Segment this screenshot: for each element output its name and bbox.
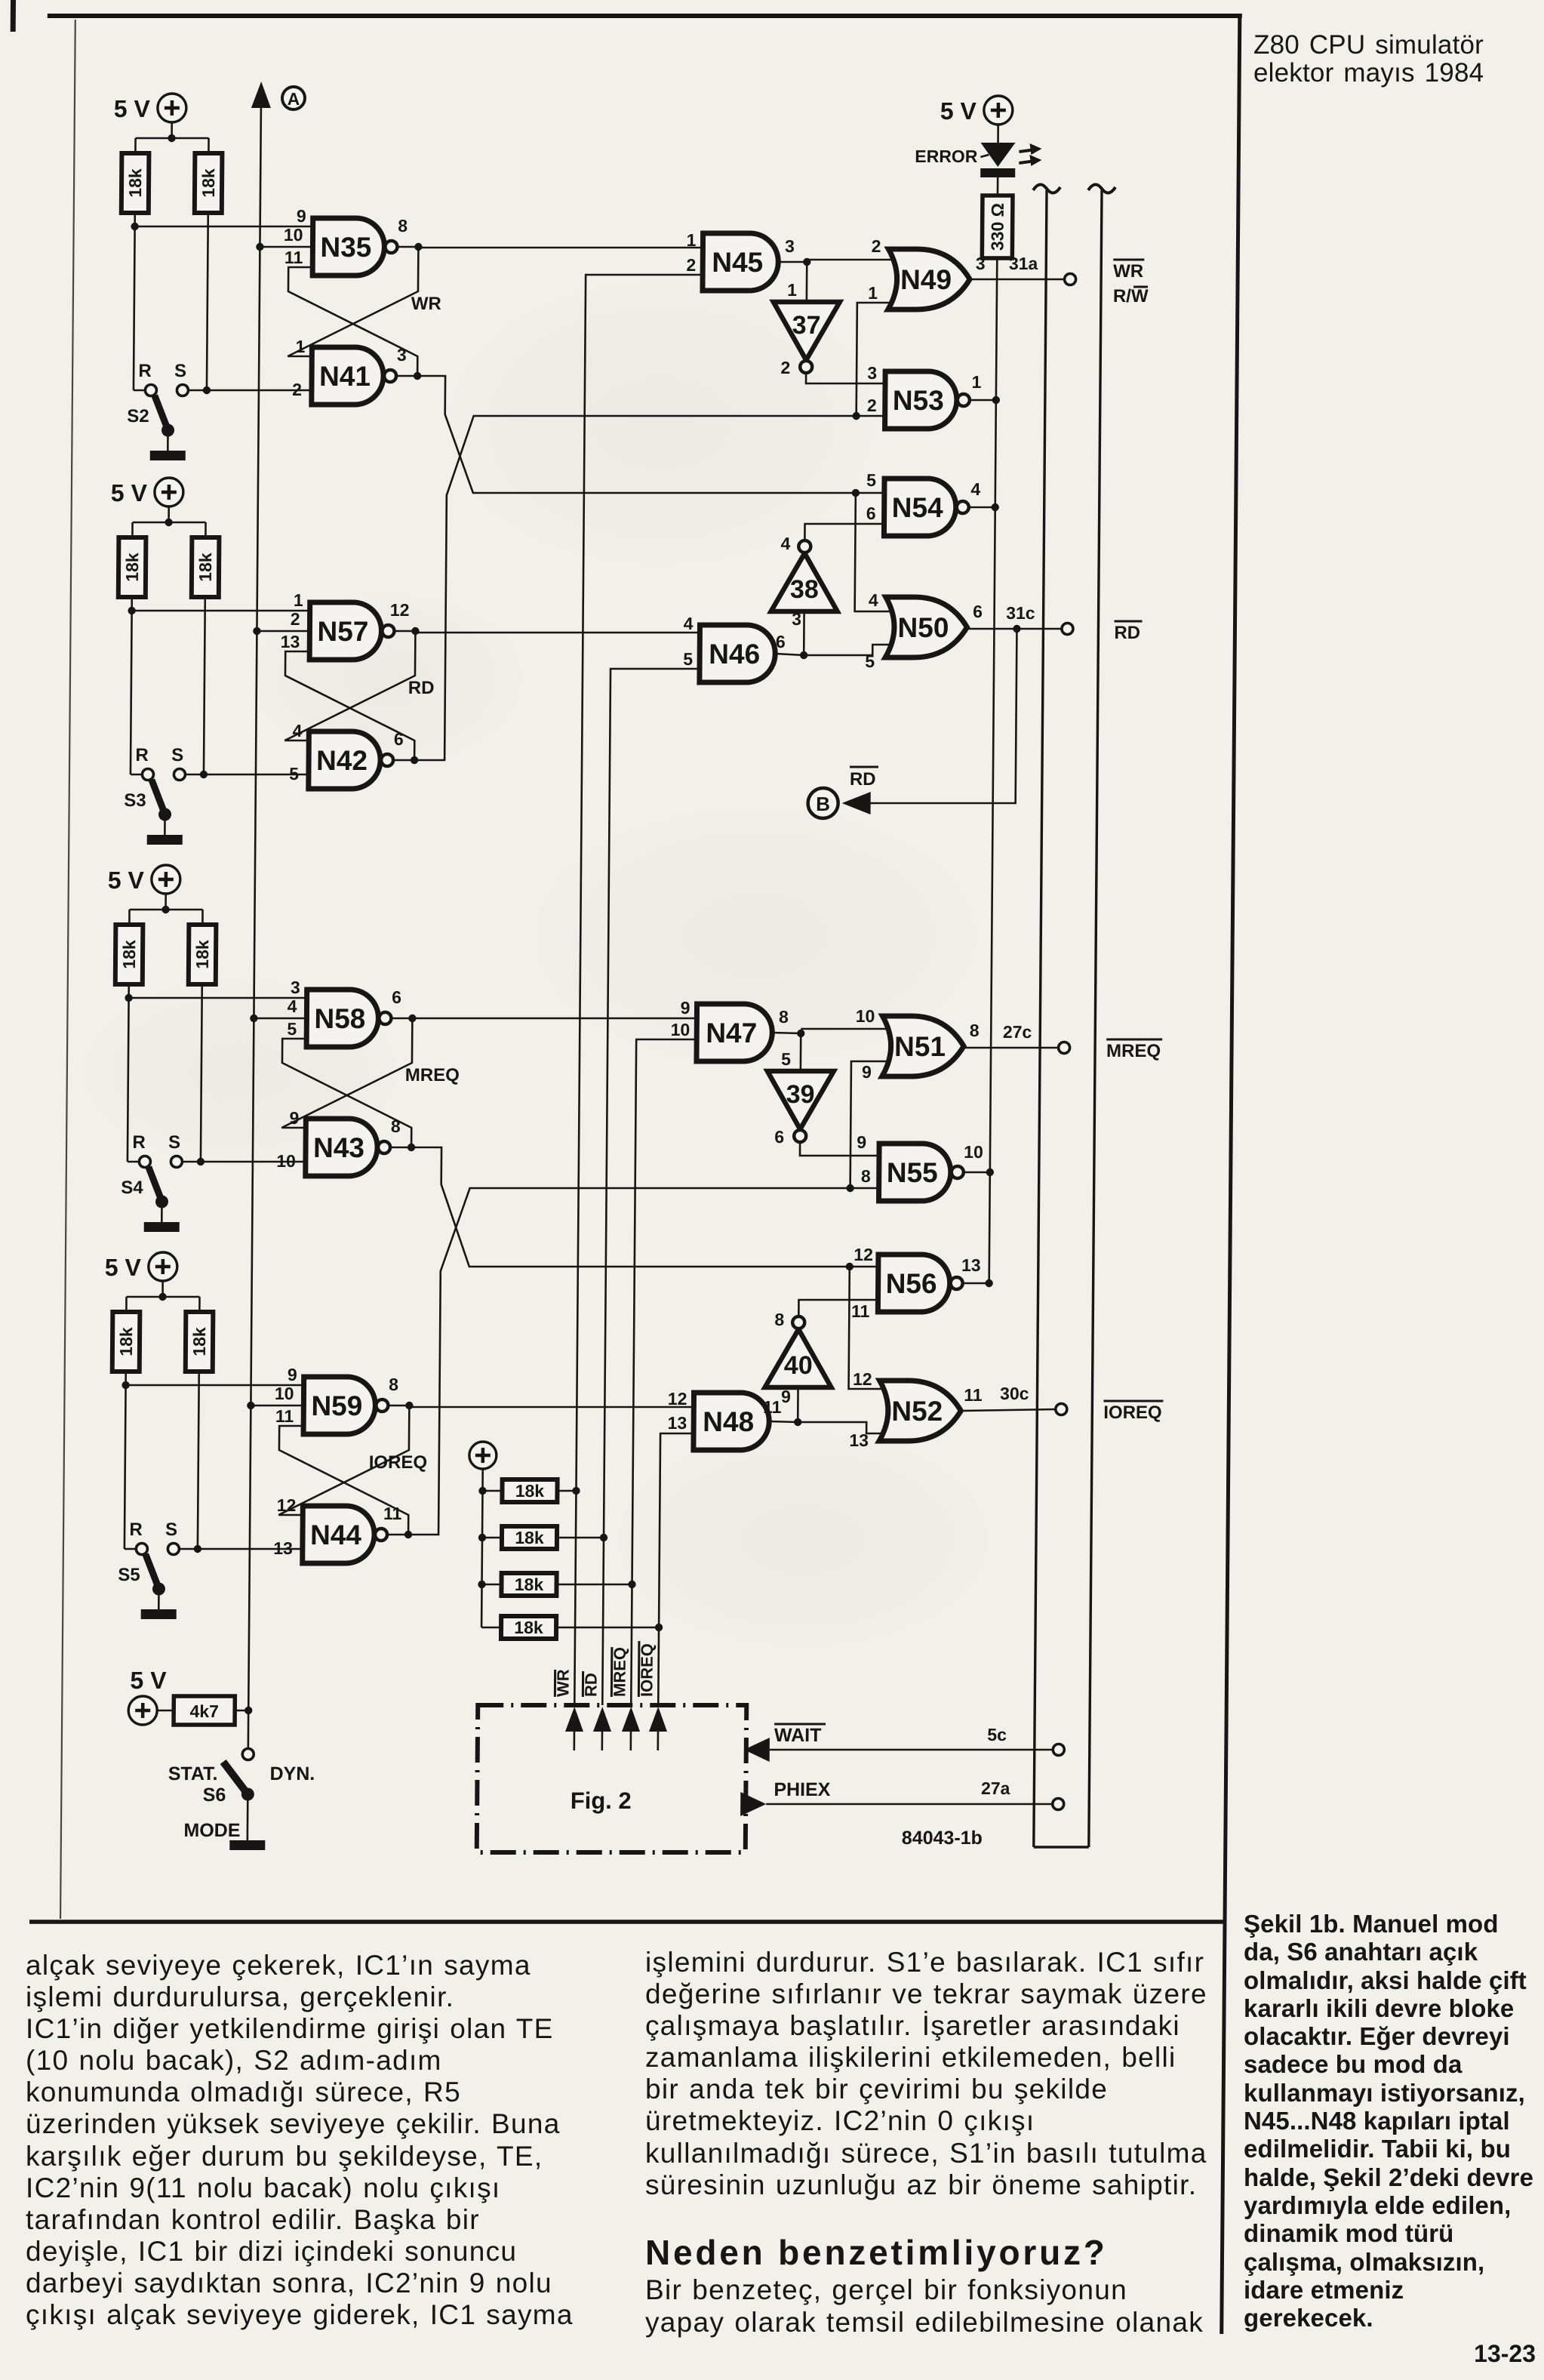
text column 2b: [645, 2274, 1204, 2338]
nand gate N58: [306, 990, 379, 1047]
svg-text:S: S: [174, 361, 186, 381]
svg-text:3: 3: [792, 609, 801, 629]
wire to MODE ground: [247, 1794, 249, 1840]
nand gate N44: [303, 1506, 375, 1563]
and gate N47: [697, 1004, 773, 1061]
wire up to N51 pin 9: [850, 1061, 891, 1188]
contact R of S2: [145, 385, 156, 396]
wire N50 out to terminal 31c: [968, 628, 1061, 630]
svg-text:4: 4: [869, 590, 878, 610]
arrow IOREQ into Fig.2: [649, 1707, 667, 1732]
switch S6 lever: [223, 1762, 248, 1794]
wire res2 down to S contact: [201, 984, 202, 1162]
wire inv39 to N55 pin 9: [800, 1142, 879, 1156]
svg-text:37: 37: [792, 311, 821, 340]
5V supply pull-up row: [469, 1442, 497, 1469]
svg-text:N58: N58: [314, 1003, 365, 1034]
svg-text:13: 13: [961, 1255, 981, 1275]
svg-text:IOREQ: IOREQ: [369, 1452, 428, 1473]
svg-text:2: 2: [291, 609, 300, 629]
contact S of S5: [168, 1544, 179, 1555]
svg-text:18k: 18k: [119, 940, 139, 969]
svg-text:5 V: 5 V: [130, 1667, 167, 1694]
svg-text:5 V: 5 V: [940, 97, 977, 125]
wire N42 output up through X to N49/N53: [414, 416, 885, 760]
node RD tap: [1013, 625, 1020, 633]
node: [600, 1534, 607, 1541]
and gate N48: [694, 1393, 770, 1450]
nand gate N54: [884, 479, 956, 536]
wire S row to lower gate: [188, 389, 312, 392]
switch S2 lever: [155, 396, 168, 428]
wire N51 out to terminal 27c: [965, 1047, 1058, 1049]
node output N35: [414, 243, 422, 251]
node B circle: [807, 788, 838, 818]
wire bus A vertical: [248, 106, 261, 1748]
svg-text:5: 5: [289, 764, 299, 784]
node on line A: [253, 627, 260, 635]
svg-text:3: 3: [785, 236, 795, 256]
svg-text:IOREQ: IOREQ: [1103, 1402, 1162, 1423]
node on LED line: [992, 396, 1000, 404]
or gate N50: [885, 597, 967, 657]
wire: [997, 177, 999, 196]
wire line A to pin 4: [254, 1018, 306, 1020]
svg-text:5 V: 5 V: [108, 867, 145, 894]
svg-text:WR: WR: [1113, 261, 1143, 282]
svg-text:9: 9: [289, 1108, 299, 1128]
node output N41: [414, 372, 421, 380]
node: [197, 1158, 205, 1165]
svg-text:RD: RD: [1114, 623, 1140, 643]
svg-text:4: 4: [684, 614, 694, 633]
arrow RD into Fig.2: [593, 1707, 611, 1732]
svg-text:6: 6: [973, 602, 983, 621]
nand gate N53: [885, 371, 958, 429]
wire line A to pin 10: [260, 246, 312, 248]
svg-text:18k: 18k: [515, 1575, 544, 1594]
svg-text:R: R: [132, 1132, 146, 1153]
ground MODE: [229, 1840, 265, 1850]
node: [203, 386, 211, 394]
svg-text:18k: 18k: [195, 553, 215, 582]
node: [846, 1184, 854, 1192]
svg-text:S5: S5: [118, 1565, 140, 1585]
Fig.2 interface box (dash-dot): [477, 1705, 747, 1852]
svg-text:N51: N51: [894, 1031, 946, 1062]
svg-text:S6: S6: [203, 1784, 226, 1806]
sidebar caption: [1244, 1910, 1533, 2332]
node: [165, 519, 172, 526]
resistor 4k7: [174, 1696, 235, 1725]
nand gate N41: [312, 347, 384, 405]
svg-text:WR: WR: [411, 294, 441, 314]
svg-text:2: 2: [780, 358, 790, 377]
node: [655, 1624, 663, 1631]
svg-text:S: S: [165, 1519, 177, 1540]
wire N48 out to N52 pin 13: [798, 1422, 888, 1433]
wire res2 down to S contact: [204, 597, 205, 774]
wire N57 output to N46 pin 4: [415, 632, 700, 634]
wire to inverter 40: [797, 1387, 799, 1422]
svg-text:5: 5: [781, 1049, 791, 1069]
wire inv38 to N54 pin 6: [804, 524, 884, 539]
svg-text:10: 10: [276, 1151, 296, 1171]
svg-text:N48: N48: [703, 1406, 754, 1437]
node on line A: [256, 243, 263, 251]
wire N52 out to terminal 30c: [962, 1409, 1055, 1411]
wire: [171, 122, 173, 138]
svg-text:10: 10: [671, 1020, 690, 1039]
wire to pin 9: [126, 1384, 304, 1387]
bus line a (break squiggle): [1033, 184, 1060, 192]
bus line c (break squiggle): [1088, 184, 1115, 192]
switch S5 lever: [145, 1554, 158, 1587]
svg-text:RD: RD: [581, 1673, 600, 1697]
svg-text:11: 11: [964, 1385, 983, 1405]
terminal 31c: [1062, 623, 1073, 635]
switch S4 lever: [149, 1167, 161, 1199]
svg-text:3: 3: [291, 978, 300, 997]
svg-text:18k: 18k: [116, 1327, 136, 1356]
svg-text:10: 10: [284, 225, 303, 245]
resistor 18k (S pull-up): [189, 925, 217, 984]
title block: [1253, 32, 1484, 87]
and gate N46: [700, 625, 776, 682]
svg-text:330 Ω: 330 Ω: [987, 203, 1007, 251]
wire N56 out: [963, 1282, 989, 1285]
svg-text:18k: 18k: [514, 1618, 543, 1637]
terminal 27c: [1059, 1042, 1070, 1054]
svg-text:27a: 27a: [981, 1778, 1010, 1798]
svg-text:1: 1: [687, 230, 697, 250]
svg-text:N47: N47: [706, 1018, 757, 1048]
svg-text:2: 2: [867, 396, 877, 415]
wire: [997, 125, 999, 143]
svg-text:R: R: [135, 745, 149, 765]
svg-text:2: 2: [292, 380, 302, 399]
cross-coupling N59/N44 (IOREQ latch): [278, 1426, 409, 1535]
node: [125, 994, 132, 1002]
svg-text:N53: N53: [893, 385, 944, 416]
svg-text:S: S: [168, 1132, 180, 1153]
node: [128, 607, 135, 614]
ground: [141, 1609, 177, 1619]
svg-text:A: A: [288, 89, 300, 109]
terminal 5c: [1053, 1744, 1064, 1756]
wire N54 out: [969, 506, 995, 509]
svg-text:11: 11: [763, 1397, 782, 1417]
wire N35 output to N45 pin 1: [418, 247, 703, 249]
svg-text:12: 12: [853, 1369, 872, 1389]
node output N42: [411, 756, 418, 764]
svg-text:N42: N42: [316, 745, 368, 776]
resistor 330 ohm: [982, 196, 1013, 258]
switch S3 lever: [152, 780, 165, 812]
node output N58: [408, 1015, 416, 1022]
wire: [157, 1710, 174, 1712]
inverter 40: [765, 1329, 832, 1387]
svg-text:11: 11: [285, 248, 303, 267]
wire N53 out: [970, 399, 996, 402]
svg-text:8: 8: [389, 1375, 398, 1394]
resistor 18k (S pull-up): [186, 1312, 214, 1372]
node: [200, 771, 208, 778]
bus line a vertical: [1034, 190, 1047, 1847]
wire N49 out to terminal 31a: [971, 279, 1064, 281]
svg-text:4: 4: [288, 996, 297, 1016]
inverter 39: [767, 1071, 834, 1129]
resistor 18k (R pull-up): [118, 537, 146, 597]
resistor 18k (R pull-up): [121, 153, 149, 213]
wire: [481, 1469, 483, 1627]
arrow WAIT into Fig.2: [744, 1738, 770, 1762]
ground: [144, 1222, 180, 1232]
svg-text:39: 39: [786, 1080, 815, 1109]
svg-text:2: 2: [872, 236, 881, 256]
arrow PHIEX out of Fig.2: [740, 1792, 766, 1816]
wire IOREQ vertical: [658, 1433, 694, 1705]
svg-text:5: 5: [287, 1019, 297, 1039]
resistor 18k row 1: [502, 1479, 557, 1502]
node: [121, 1381, 129, 1389]
svg-text:5: 5: [866, 470, 876, 490]
wire line A to pin 2: [257, 630, 309, 633]
svg-text:2: 2: [686, 255, 696, 275]
wire N47 out to N51 pin 10: [801, 1028, 891, 1030]
terminal 30c: [1056, 1404, 1067, 1415]
wire down to N52 pin 12: [849, 1267, 890, 1389]
node N46 out: [800, 651, 807, 659]
wire inv40 to N56 pin 11: [798, 1300, 878, 1315]
svg-text:1: 1: [295, 337, 305, 356]
svg-text:S: S: [171, 745, 183, 765]
svg-text:WAIT: WAIT: [774, 1725, 822, 1746]
node: [852, 489, 860, 497]
svg-text:18k: 18k: [122, 553, 142, 582]
node N47 out: [797, 1030, 804, 1037]
node on LED line: [985, 1279, 992, 1287]
svg-text:MREQ: MREQ: [405, 1065, 460, 1085]
wire LED line down: [989, 258, 998, 1283]
wire to pin 1: [132, 610, 310, 612]
nand gate N35: [312, 218, 385, 276]
wire inv37 to N53 pin 3: [806, 373, 885, 383]
node on LED line: [986, 1168, 994, 1176]
svg-text:84043-1b: 84043-1b: [902, 1827, 983, 1849]
wire: [482, 1537, 502, 1539]
node: [168, 134, 175, 142]
svg-text:RD: RD: [408, 678, 435, 698]
svg-text:4: 4: [970, 479, 980, 499]
nand gate N57: [309, 602, 382, 660]
svg-text:N55: N55: [887, 1157, 938, 1188]
wire RD vertical: [602, 669, 700, 1705]
svg-text:4k7: 4k7: [189, 1701, 219, 1721]
svg-text:STAT.: STAT.: [168, 1763, 218, 1784]
5V supply for IOREQ latch: [149, 1252, 177, 1281]
svg-text:18k: 18k: [515, 1481, 545, 1501]
arrowhead line A: [251, 82, 271, 108]
or gate N52: [879, 1381, 961, 1441]
inverter 38: [771, 553, 838, 611]
wire: [128, 984, 130, 998]
svg-text:18k: 18k: [192, 940, 212, 969]
wire: [482, 1584, 502, 1586]
svg-text:40: 40: [784, 1351, 813, 1380]
wire RD tap down to B arrow: [869, 629, 1017, 803]
wire line A to pin 10: [251, 1405, 303, 1407]
wire to pin 3: [129, 997, 307, 999]
svg-text:8: 8: [861, 1166, 871, 1186]
svg-text:18k: 18k: [189, 1327, 209, 1356]
5V supply ERROR led: [984, 96, 1013, 125]
5V supply for WR latch: [158, 94, 186, 122]
resistor 18k row 4: [501, 1616, 556, 1639]
node on line A: [250, 1015, 257, 1022]
ground: [150, 451, 186, 460]
svg-text:1: 1: [294, 590, 303, 610]
nand gate N42: [309, 731, 381, 789]
svg-text:R: R: [138, 361, 152, 381]
svg-text:9: 9: [288, 1365, 297, 1384]
svg-text:RD: RD: [850, 769, 876, 790]
contact S6: [242, 1749, 254, 1760]
wire: [165, 894, 167, 910]
svg-text:12: 12: [854, 1245, 873, 1264]
wire to inverter 37: [806, 262, 808, 302]
cross-coupling N35/N41 (WR latch): [288, 267, 418, 376]
svg-text:B: B: [816, 793, 830, 815]
svg-text:3: 3: [867, 363, 877, 383]
wire S row to lower gate: [185, 774, 309, 776]
svg-text:N45: N45: [712, 247, 763, 278]
wire down to R contact: [128, 998, 129, 1162]
node output N44: [404, 1531, 412, 1538]
node output N59: [405, 1402, 413, 1409]
5V supply for MREQ latch: [152, 865, 180, 894]
svg-text:8: 8: [970, 1021, 980, 1040]
wire N41 output to X crossover: [417, 376, 885, 493]
wire lever to ground: [164, 814, 166, 835]
svg-text:18k: 18k: [125, 168, 145, 198]
wire: [482, 1490, 502, 1492]
wire WR vertical: [574, 275, 703, 1705]
wire: [481, 1627, 501, 1629]
wire: [131, 597, 133, 611]
svg-text:N44: N44: [310, 1519, 362, 1550]
svg-text:S4: S4: [121, 1178, 143, 1198]
nand gate N59: [303, 1377, 376, 1434]
node output N57: [411, 627, 419, 635]
node on line A: [247, 1402, 254, 1409]
wire S row to lower gate: [179, 1548, 303, 1550]
node on line A: [245, 1707, 252, 1714]
svg-text:DYN.: DYN.: [269, 1763, 315, 1784]
svg-text:R/W: R/W: [1113, 286, 1149, 306]
cross-coupling N58/N43 (MREQ latch): [281, 1039, 412, 1147]
inverter 37: [773, 302, 840, 360]
svg-text:4: 4: [292, 721, 302, 740]
svg-text:8: 8: [779, 1007, 789, 1027]
wire res2 down to S contact: [198, 1372, 199, 1549]
svg-text:R: R: [129, 1519, 143, 1540]
node N48 out: [794, 1418, 801, 1426]
text column 2: [645, 1947, 1207, 2201]
svg-text:9: 9: [857, 1132, 866, 1152]
node: [158, 1293, 166, 1301]
svg-text:9: 9: [781, 1387, 791, 1406]
svg-text:N35: N35: [320, 232, 371, 263]
contact R of S5: [136, 1544, 147, 1555]
svg-text:4: 4: [780, 534, 790, 553]
svg-text:S3: S3: [124, 790, 146, 811]
svg-text:12: 12: [668, 1389, 687, 1409]
text rule above columns: [29, 1920, 1224, 1924]
svg-text:N43: N43: [313, 1132, 364, 1163]
wire down to R contact: [134, 226, 135, 390]
svg-text:N52: N52: [891, 1396, 943, 1427]
wire to inverter 39: [800, 1033, 802, 1071]
resistor 18k row 3: [501, 1573, 556, 1596]
svg-text:13: 13: [281, 632, 300, 651]
wire S row to lower gate: [182, 1161, 306, 1163]
svg-text:6: 6: [774, 1127, 784, 1147]
5V supply for RD latch: [155, 478, 183, 506]
svg-text:5 V: 5 V: [114, 95, 151, 122]
node A circle label: [282, 87, 305, 109]
svg-text:PHIEX: PHIEX: [774, 1779, 831, 1800]
svg-text:N59: N59: [311, 1390, 362, 1421]
node: [852, 412, 860, 420]
led light arrows: [1019, 149, 1035, 152]
wire: [235, 1710, 248, 1712]
wire lever to ground: [158, 1589, 160, 1609]
svg-text:5 V: 5 V: [105, 1254, 142, 1281]
svg-text:38: 38: [790, 575, 819, 604]
svg-text:10: 10: [964, 1142, 983, 1162]
wire: [134, 213, 136, 226]
arrow WR into Fig.2: [565, 1707, 583, 1732]
svg-text:18k: 18k: [515, 1528, 544, 1547]
node N45 out: [803, 258, 810, 266]
svg-text:S2: S2: [127, 406, 149, 426]
wire to pin 9: [135, 226, 313, 228]
svg-text:8: 8: [398, 216, 408, 236]
svg-text:N49: N49: [900, 264, 952, 295]
svg-text:N41: N41: [319, 361, 371, 392]
svg-text:5: 5: [865, 651, 875, 671]
contact R of S3: [142, 769, 153, 781]
wire down to R contact: [125, 1385, 126, 1549]
wire N55 out: [964, 1172, 990, 1174]
svg-text:13: 13: [849, 1430, 869, 1450]
svg-text:5 V: 5 V: [111, 479, 148, 506]
or gate N51: [882, 1016, 964, 1076]
wire N43 output through X to N51/N56: [411, 1147, 879, 1267]
contact S of S3: [174, 769, 185, 781]
contact R of S4: [139, 1156, 150, 1168]
svg-text:13: 13: [273, 1538, 293, 1558]
page number: [1385, 2340, 1536, 2368]
svg-text:N46: N46: [709, 639, 760, 670]
or gate N49: [888, 249, 970, 309]
svg-text:13: 13: [667, 1413, 687, 1433]
svg-text:9: 9: [862, 1062, 872, 1082]
contact S of S4: [171, 1156, 182, 1168]
wire lever to ground: [161, 1202, 163, 1222]
svg-text:N56: N56: [886, 1268, 937, 1299]
